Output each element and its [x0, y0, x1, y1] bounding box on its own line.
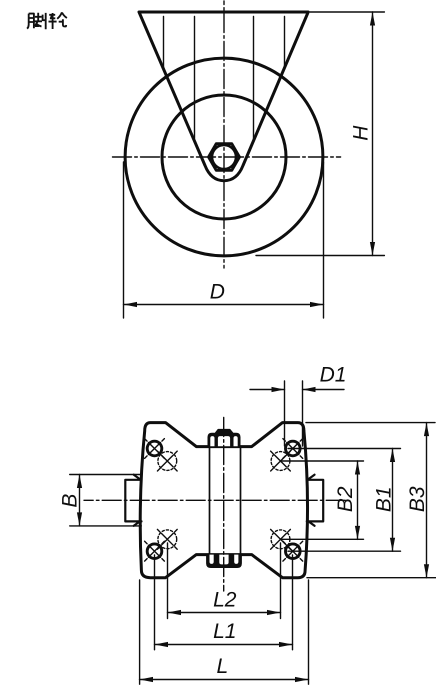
dim B1 extension top: [288, 448, 401, 450]
dim B1 arrow bottom: [390, 538, 395, 552]
dim B1 line: [392, 449, 394, 552]
dim L1 extension left: [154, 555, 156, 650]
hole cross top-left: [145, 439, 165, 459]
mounting hole bottom-right: [286, 544, 301, 559]
dim L1 arrow right: [279, 642, 293, 647]
dim D1 arrow right: [303, 387, 316, 392]
horizontal centerline plan view: [84, 499, 346, 501]
dim D1 arrow left: [272, 387, 285, 392]
fork bracket outline: [139, 12, 308, 181]
dim D extension line right: [323, 162, 325, 318]
dim L2 arrow right: [267, 610, 281, 615]
dim B1 extension bottom: [288, 550, 401, 552]
mounting hole top-left: [147, 441, 162, 456]
dim B2 arrow top: [355, 461, 360, 475]
dim D line: [124, 304, 324, 306]
svg-text:B2: B2: [334, 486, 357, 512]
fork bend line right outer: [284, 17, 286, 69]
dim H extension line top: [310, 11, 384, 13]
dim B3 extension bottom: [307, 577, 436, 579]
hub end right (plan): [307, 475, 323, 526]
dim D1 line right: [303, 389, 345, 391]
hole cross bottom-right: [283, 541, 303, 561]
alternative hole top-right (dashed): [271, 452, 290, 471]
hole cross top-right: [283, 439, 303, 459]
dim B2 line: [357, 461, 359, 539]
title text jiao-lun (caster) drawn as strokes: [27, 12, 67, 29]
dim D1 extension right: [302, 381, 304, 446]
fork bend line left inner: [194, 17, 196, 139]
alternative hole top-left (dashed): [158, 452, 177, 471]
axle hex nut: [209, 144, 240, 171]
kingpin nut bottom (plan): [207, 554, 241, 567]
dim L arrow left: [140, 677, 154, 682]
dim D1 line left: [250, 389, 285, 391]
dim L2 line: [168, 612, 281, 614]
dim L2 extension left: [167, 543, 169, 619]
dim L2 extension right: [280, 543, 282, 619]
dim L1 arrow left: [155, 642, 169, 647]
vertical centerline front view: [223, 1, 225, 268]
dim L line: [140, 679, 309, 681]
dim L extension left: [139, 580, 141, 684]
alternative hole bottom-left (dashed): [158, 530, 177, 549]
svg-text:L1: L1: [213, 620, 236, 643]
svg-text:D1: D1: [320, 364, 347, 387]
dim H arrow bottom: [370, 242, 375, 256]
dim D1 extension left: [284, 381, 286, 446]
dim L1 line: [155, 644, 293, 646]
dim B2 extension bottom: [281, 538, 364, 540]
kingpin nut top (plan): [208, 430, 240, 447]
fork side line left (plan): [209, 448, 211, 554]
dim B3 extension top: [306, 422, 435, 424]
dim L arrow right: [295, 677, 309, 682]
wheel edge line bottom-left / B extension bottom: [70, 525, 142, 527]
hole cross bottom-left: [145, 541, 165, 561]
alt hole cross bottom-left: [157, 529, 177, 549]
dim B line: [79, 475, 81, 526]
dim D extension line left: [123, 162, 125, 318]
svg-text:L2: L2: [213, 588, 237, 611]
alternative hole bottom-right (dashed): [271, 530, 290, 549]
fork bend line right inner: [253, 17, 255, 139]
svg-text:B: B: [58, 494, 81, 508]
alt hole cross bottom-right: [271, 529, 291, 549]
svg-text:H: H: [350, 125, 373, 141]
svg-text:L: L: [217, 655, 229, 678]
dim H line: [372, 12, 374, 256]
mounting hole top-right: [286, 441, 301, 456]
dim B arrow bottom: [77, 512, 82, 526]
fork bend line left outer: [163, 17, 165, 69]
alt hole cross top-right: [271, 451, 291, 471]
dim B2 extension top: [281, 460, 364, 462]
dim B arrow top: [77, 475, 82, 489]
alt hole cross top-left: [157, 451, 177, 471]
vertical centerline plan view: [223, 418, 225, 592]
dim B3 arrow bottom: [424, 564, 429, 578]
dim B3 arrow top: [424, 423, 429, 437]
wheel outer circle: [125, 58, 323, 256]
horizontal centerline front view: [110, 156, 341, 158]
wheel hub circle: [162, 95, 286, 219]
hub end left (plan): [125, 475, 141, 526]
dim D arrow left: [124, 302, 138, 307]
dim H extension line bottom: [256, 255, 384, 257]
svg-text:D: D: [210, 280, 225, 303]
dim B1 arrow top: [390, 449, 395, 463]
dim L1 extension right: [292, 555, 294, 650]
wheel edge line top-left / B extension top: [70, 474, 142, 476]
svg-text:B1: B1: [372, 486, 395, 512]
dim B2 arrow bottom: [355, 526, 360, 540]
dim L extension right: [308, 580, 310, 684]
plate outline: [140, 423, 307, 578]
dim B3 line: [426, 423, 428, 578]
mounting hole bottom-left: [147, 544, 162, 559]
dim L2 arrow left: [168, 610, 182, 615]
axle washer circle: [212, 145, 236, 169]
dim D arrow right: [310, 302, 324, 307]
svg-text:B3: B3: [406, 486, 429, 512]
dim H arrow top: [370, 12, 375, 26]
fork side line right (plan): [240, 448, 242, 554]
